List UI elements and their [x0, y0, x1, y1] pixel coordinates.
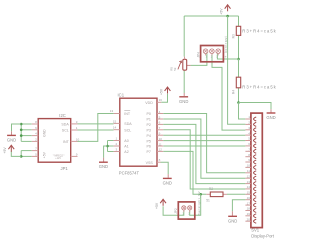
jumper JP4 contrast select: [201, 46, 224, 62]
svg-text:18: 18: [247, 207, 251, 211]
svg-text:GND: GND: [7, 137, 16, 142]
svg-text:SDA: SDA: [61, 122, 69, 126]
svg-text:INT: INT: [124, 112, 131, 116]
wire R3 bottom to node: [238, 35, 240, 59]
connector SV1 Display-Port: [251, 113, 262, 228]
svg-text:9: 9: [159, 132, 161, 136]
connector JP1 I2C header: [38, 119, 70, 163]
junction R4 bottom / GND net: [237, 101, 240, 104]
svg-text:A2: A2: [124, 150, 128, 154]
svg-text:A0: A0: [124, 139, 128, 143]
wire JP4 pin1 to trimmer wiper: [191, 53, 207, 65]
svg-text:14: 14: [247, 185, 251, 189]
svg-text:+5V: +5V: [3, 147, 7, 154]
svg-text:1: 1: [248, 115, 250, 119]
svg-text:11: 11: [247, 169, 250, 173]
wire INT: [78, 114, 114, 142]
wire JP1 pin4: [21, 135, 32, 137]
svg-text:GND: GND: [99, 164, 108, 169]
svg-text:SDA: SDA: [124, 122, 132, 126]
wire SDA: [78, 123, 114, 125]
+5V supply at JP1: [8, 145, 14, 149]
svg-text:4: 4: [159, 110, 161, 114]
svg-text:P2: P2: [146, 123, 150, 127]
wire IC1 VSS to GND: [161, 162, 169, 174]
wire A1 tie: [108, 145, 114, 147]
junction backlight net / JP2: [199, 193, 202, 196]
svg-text:4: 4: [35, 132, 37, 136]
svg-text:10: 10: [247, 164, 251, 168]
+5V supply top right: [225, 5, 231, 9]
svg-text:+5V: +5V: [155, 202, 159, 209]
wire A0-A2 vertical: [107, 141, 109, 152]
svg-text:13: 13: [110, 109, 114, 113]
svg-text:JP1: JP1: [61, 166, 69, 171]
wire trimmer GND stub: [183, 93, 185, 96]
wire GND stub below SV1: [231, 211, 233, 216]
svg-text:5: 5: [248, 137, 250, 141]
svg-text:GND: GND: [42, 129, 46, 137]
wire P6 to SV1 pin6: [163, 145, 245, 147]
wire JP1 +5V rail: [20, 151, 22, 157]
svg-text:13: 13: [247, 180, 251, 184]
svg-text:GND: GND: [266, 115, 275, 120]
svg-text:VDD: VDD: [145, 101, 153, 105]
wire P4 to SV1 pin4: [163, 134, 245, 136]
svg-text:14: 14: [113, 126, 117, 130]
wire GND net down to SV1 pin1: [239, 103, 246, 120]
svg-text:VSS: VSS: [146, 161, 154, 165]
wire A0 tie: [108, 140, 114, 142]
wire A GND stub: [103, 158, 105, 162]
svg-text:2: 2: [248, 121, 250, 125]
wire A pins to GND: [104, 146, 108, 158]
svg-text:6: 6: [159, 121, 161, 125]
svg-text:P3: P3: [146, 129, 150, 133]
svg-text:10: 10: [76, 138, 80, 142]
svg-text:4: 4: [248, 131, 250, 135]
svg-text:8: 8: [35, 120, 37, 124]
jumper JP2 backlight: [178, 202, 195, 219]
svg-text:7: 7: [35, 147, 37, 151]
svg-text:17: 17: [247, 201, 251, 205]
svg-text:R4: R4: [232, 90, 236, 94]
svg-text:+5V: +5V: [159, 88, 163, 95]
junction JP1 rail b: [20, 129, 23, 132]
ground at SV1 top (pin1 net): [267, 112, 276, 114]
wire JP1 pin7: [21, 150, 32, 152]
svg-text:R3+R4=ca5k: R3+R4=ca5k: [242, 84, 276, 89]
svg-text:P1: P1: [146, 118, 150, 122]
svg-text:1: 1: [115, 137, 117, 141]
wire SCL: [78, 129, 114, 131]
svg-text:2: 2: [115, 142, 117, 146]
svg-text:JP4: JP4: [197, 52, 201, 58]
svg-text:3: 3: [76, 120, 78, 124]
svg-text:51: 51: [206, 198, 210, 202]
trimmer potentiometer R5: [183, 59, 187, 70]
wire R3 top lead: [238, 16, 240, 26]
svg-text:P6: P6: [146, 145, 150, 149]
svg-text:16: 16: [247, 196, 251, 200]
svg-text:9: 9: [248, 158, 250, 162]
svg-text:12: 12: [159, 148, 163, 152]
junction JP1 rail d: [20, 155, 23, 158]
ground at IC1 VSS: [163, 177, 172, 179]
wire trimmer wiper stub: [186, 64, 190, 66]
svg-text:SV1: SV1: [251, 228, 260, 233]
svg-text:7: 7: [159, 126, 161, 130]
svg-text:IC1: IC1: [118, 93, 125, 98]
svg-text:P4: P4: [146, 134, 150, 138]
svg-text:A1: A1: [124, 145, 128, 149]
svg-text:+5V: +5V: [220, 8, 224, 15]
wire JP4 pin2 to SV1 pin3: [212, 53, 245, 130]
junction JP1 rail c: [20, 134, 23, 137]
wire rail to GND: [12, 124, 22, 131]
svg-text:5k: 5k: [173, 67, 177, 71]
wire P5 to SV1 pin5: [163, 140, 245, 142]
svg-text:15: 15: [113, 119, 117, 123]
svg-text:R3: R3: [232, 34, 236, 38]
svg-text:3: 3: [115, 148, 117, 152]
wire P3 to SV1 pin14: [163, 130, 245, 189]
wire IC1 VDD to +5V: [161, 94, 167, 103]
svg-text:6: 6: [248, 142, 250, 146]
svg-text:P5: P5: [146, 139, 150, 143]
svg-text:R3+R4=ca5k: R3+R4=ca5k: [242, 28, 276, 33]
svg-text:6: 6: [35, 126, 37, 130]
svg-text:SCL: SCL: [62, 129, 69, 133]
svg-text:R2: R2: [209, 187, 213, 191]
svg-text:15: 15: [247, 191, 251, 195]
svg-text:I2C: I2C: [59, 113, 66, 118]
wire node to JP4 pin3: [217, 53, 238, 59]
svg-text:SCL: SCL: [124, 128, 131, 132]
wire +5V top rail horizontal: [184, 15, 238, 17]
wire +5V rail down to SV1 pin2: [228, 16, 246, 124]
wire +5V to JP2 pin1: [163, 206, 184, 215]
wire P2 to SV1 pin13: [163, 124, 245, 183]
wire SV1 pin16 to GND: [232, 200, 245, 212]
resistor R4: [236, 77, 240, 88]
wire P1 to SV1 pin12: [163, 119, 245, 178]
wire JP1 pin2: [21, 140, 32, 142]
svg-text:5: 5: [35, 153, 37, 157]
wire P7 to R2 backlight net: [163, 151, 206, 194]
svg-text:P0: P0: [146, 112, 150, 116]
wire GND net to GND symbol right: [239, 103, 272, 110]
wire JP1 pin8: [21, 123, 32, 125]
svg-text:3: 3: [248, 126, 250, 130]
IC IC1 PCF8574T I2C I/O expander with pin labels and numbers: [120, 98, 157, 166]
wire VSS GND stub: [167, 174, 169, 178]
svg-text:2: 2: [35, 138, 37, 142]
junction JP1 rail a: [20, 123, 23, 126]
svg-text:19: 19: [247, 212, 251, 216]
svg-text:8: 8: [248, 153, 250, 157]
svg-text:12: 12: [247, 174, 251, 178]
svg-text:PCF8574T: PCF8574T: [119, 171, 140, 176]
ground at A0-A2: [99, 161, 108, 163]
svg-text:JP2: JP2: [174, 208, 178, 214]
svg-text:GND: GND: [179, 99, 188, 104]
ground below trimmer R5: [179, 96, 188, 98]
wire GND stub at SV1 top: [270, 109, 272, 112]
svg-text:16: 16: [159, 98, 163, 102]
svg-text:INT: INT: [63, 140, 70, 144]
junction +5V top: [226, 15, 229, 18]
svg-text:9: 9: [76, 153, 78, 157]
svg-text:10: 10: [159, 137, 163, 141]
svg-text:11: 11: [159, 142, 162, 146]
wire trimmer bottom to GND: [183, 71, 185, 93]
wire JP1 left rail top: [20, 124, 22, 141]
svg-text:GND: GND: [163, 180, 172, 185]
svg-text:Display-Port: Display-Port: [251, 233, 275, 238]
junction A pins: [106, 145, 109, 148]
svg-text:+_kontrast: +_kontrast: [224, 36, 228, 58]
junction R3/R4/contrast node: [237, 58, 240, 61]
ground at JP1: [7, 134, 16, 136]
wire JP1 pin6: [21, 129, 32, 131]
svg-text:P7: P7: [146, 150, 150, 154]
wire R2 right lead to SV1 pin15: [227, 193, 245, 195]
wire A2 tie: [108, 151, 114, 153]
svg-text:1: 1: [76, 126, 78, 130]
svg-text:20: 20: [247, 217, 251, 221]
svg-text:5: 5: [159, 115, 161, 119]
wire R4 bottom to GND node: [238, 88, 240, 103]
+5V supply at JP2: [160, 199, 166, 203]
wire JP1 GND stub: [11, 131, 13, 135]
wire R4 top lead: [238, 59, 240, 77]
wire P0 to SV1 pin11: [163, 114, 245, 173]
resistor R2: [206, 193, 210, 195]
ground at SV1 pin16 net: [228, 215, 237, 217]
+5V supply at IC1 VDD: [165, 87, 171, 91]
svg-text:+12V: +12V: [55, 157, 61, 160]
wire +5V to trimmer R5 top: [183, 16, 185, 57]
wire +5V arrow to rail: [11, 151, 21, 156]
svg-text:GND: GND: [228, 218, 237, 223]
wire JP1 pin5: [21, 155, 32, 157]
wire JP2 pin2 riser: [190, 194, 201, 215]
svg-text:+5V: +5V: [42, 151, 46, 158]
svg-text:7: 7: [248, 148, 250, 152]
svg-text:8: 8: [159, 158, 161, 162]
svg-text:Backlight_5V: Backlight_5V: [197, 190, 201, 215]
resistor R3: [236, 26, 240, 35]
